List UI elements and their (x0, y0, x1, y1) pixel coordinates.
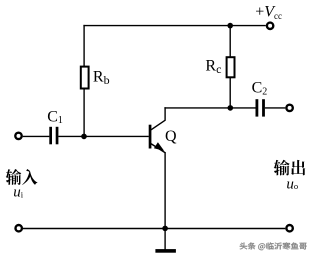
node Vcc junction (227, 23, 233, 29)
watermark 头条@临沂寒鱼哥 (240, 242, 307, 250)
wire Rb upper vertical segment (83, 25, 85, 67)
ground stub wire (164, 228, 166, 249)
transistor Q1 collector diagonal (151, 120, 166, 130)
wire top supply rail (83, 25, 265, 27)
wire C1 to base bar (58, 135, 148, 137)
label output 输出 (274, 160, 306, 176)
wire Rc lower vertical segment (229, 78, 231, 108)
resistor Rc (227, 57, 235, 77)
wire emitter vertical (164, 153, 166, 229)
transistor Q1 emitter arrow (154, 142, 164, 151)
ground (155, 249, 176, 253)
capacitor C2 (256, 99, 265, 116)
label input 输入 (6, 169, 38, 185)
node collector junction (228, 105, 234, 111)
wire bottom rail (23, 228, 285, 230)
resistor Rb (81, 67, 89, 89)
wire C2 to output terminal (265, 107, 285, 109)
terminal bottom right (286, 225, 292, 231)
svg-text:Q: Q (165, 128, 177, 145)
output terminal (286, 105, 292, 111)
node emitter junction on bottom rail (162, 226, 168, 232)
node base junction of C1 Rb and base (81, 134, 87, 140)
wire Rb lower vertical segment to base node (83, 89, 85, 136)
transistor Q1 base bar (149, 125, 152, 149)
capacitor C1 (49, 127, 58, 145)
wire collector vertical (164, 107, 166, 120)
power +Vcc terminal (267, 23, 273, 29)
wire Rc upper vertical segment (229, 26, 231, 58)
wire collector node horizontal (164, 107, 255, 109)
wire input terminal to C1 (23, 135, 50, 137)
transistor Q1 emitter diagonal (151, 144, 166, 153)
input terminal (15, 133, 21, 139)
terminal bottom left (16, 225, 22, 231)
